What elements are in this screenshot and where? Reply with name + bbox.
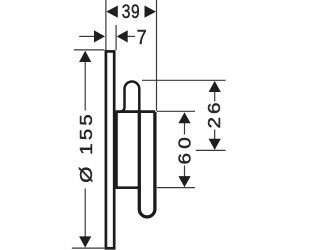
- dimension line dia155 upper segment: [84, 61, 86, 111]
- extension line plate bottom (dia 155): [72, 247, 105, 249]
- dimension line tail 7 right: [127, 35, 136, 37]
- plate (side view, dia 155): [106, 51, 114, 248]
- svg-text:Ø 155: Ø 155: [77, 111, 96, 183]
- extension line for 7 dim: [115, 25, 117, 50]
- body top edge + fillet + handle tab + front face + lower U: [116, 110, 155, 113]
- svg-text:7: 7: [137, 27, 147, 49]
- arrow left-pointing (7): [117, 30, 128, 42]
- dimension line dia155 lower segment: [84, 189, 86, 239]
- dimension line 26 upper segment: [214, 91, 216, 102]
- arrow right-pointing (7): [94, 30, 105, 42]
- dimension line tail 7 left: [79, 35, 95, 37]
- handle lever lower part with rounded bottom and front face: [139, 112, 155, 217]
- extension line right of 39 dim: [156, 0, 158, 111]
- extension line body top (60 dim): [157, 110, 195, 112]
- extension line plate top (dia 155): [74, 49, 105, 51]
- svg-text:26: 26: [205, 99, 224, 128]
- dimension line 60 lower segment: [184, 166, 186, 178]
- body bottom edge: [116, 186, 138, 189]
- extension line axis (26 dim bottom): [196, 149, 226, 151]
- arrow left (39): [106, 6, 118, 18]
- arrow up (26): [209, 81, 221, 92]
- extension line handle top (26 dim): [142, 79, 226, 81]
- dimension line 26 lower segment: [214, 130, 216, 141]
- arrow down (60): [178, 176, 190, 187]
- arrow down (26): [209, 139, 221, 150]
- svg-text:39: 39: [122, 1, 141, 23]
- svg-text:60: 60: [176, 133, 195, 164]
- extension line left of 39 dim: [105, 0, 107, 50]
- arrow up (dia 155): [79, 51, 91, 62]
- extension line body bottom (60 dim): [157, 187, 195, 189]
- arrow up (60): [178, 112, 190, 123]
- handle tab (rounded top): [120, 82, 139, 112]
- dimension line 60 upper segment: [184, 122, 186, 135]
- body back edge: [115, 112, 118, 188]
- arrow down (dia 155): [79, 236, 91, 247]
- arrow right (39): [145, 6, 157, 18]
